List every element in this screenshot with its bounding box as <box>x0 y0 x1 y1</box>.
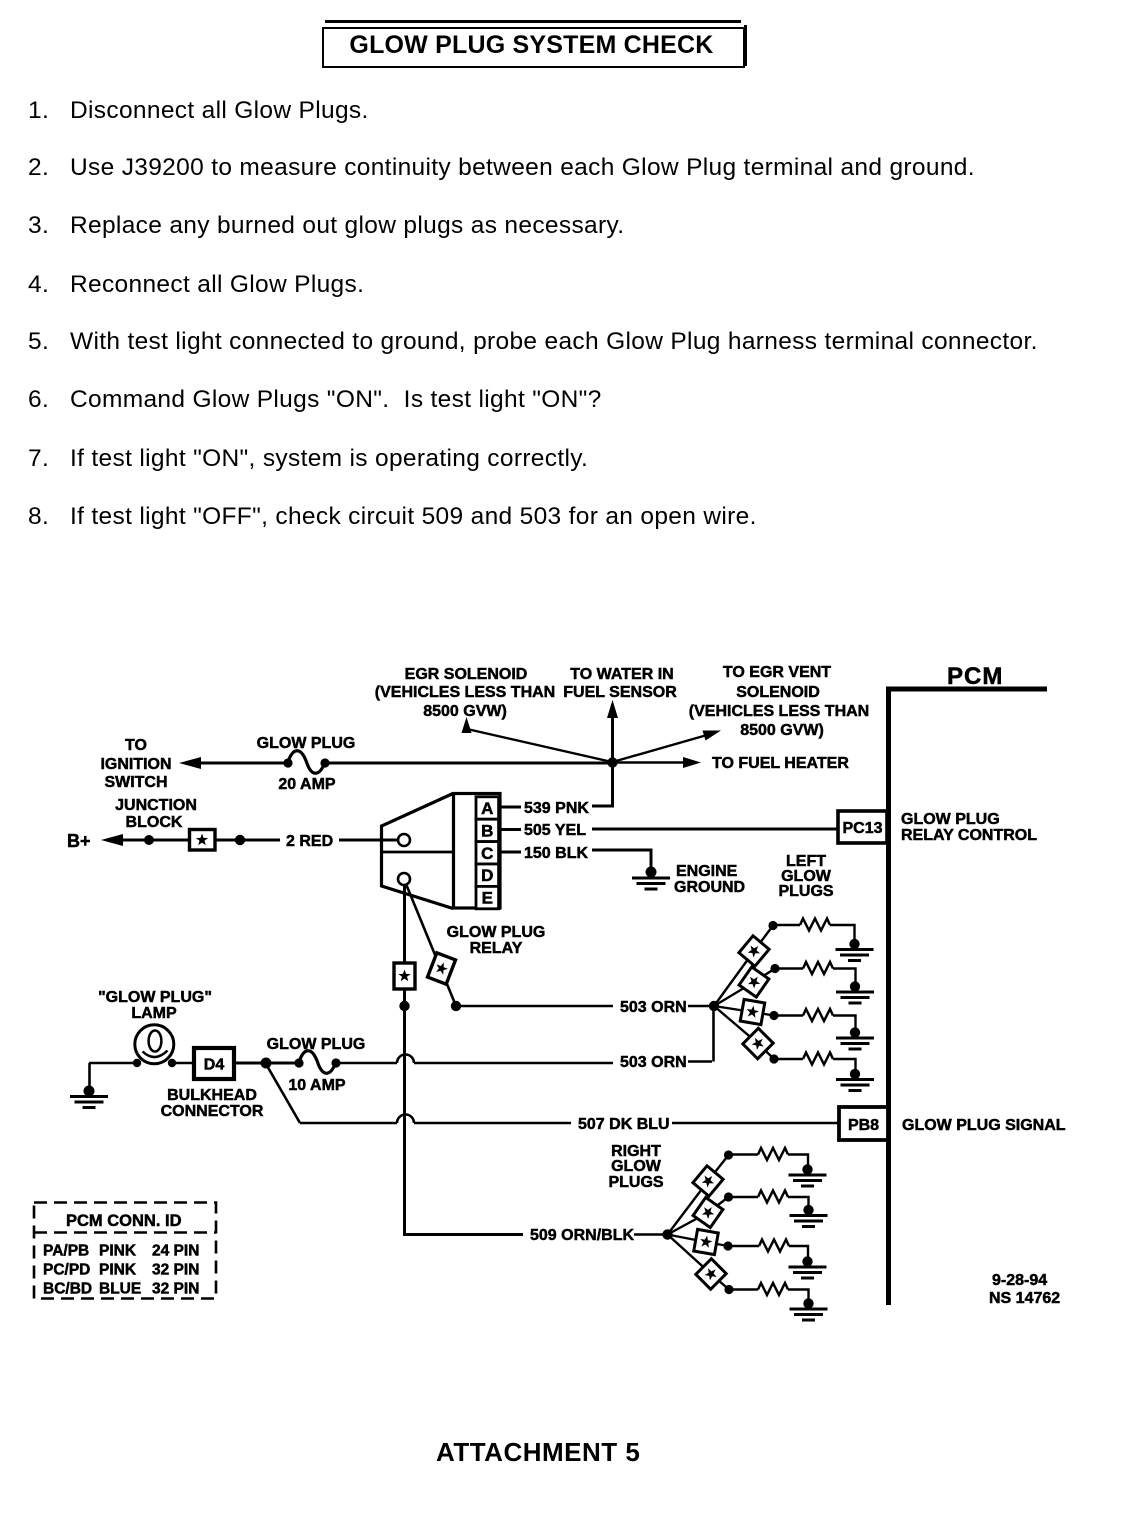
svg-text:150 BLK: 150 BLK <box>524 845 588 862</box>
ground left glow plug 2 <box>836 992 874 1003</box>
svg-text:GROUND: GROUND <box>674 879 745 896</box>
wire left glow plug branch 1 <box>714 925 855 1006</box>
wire right glow plug branch 1 <box>668 1155 809 1235</box>
connector left glow plug 1 (star box) <box>739 936 769 966</box>
wire 150 BLK to engine ground <box>592 850 651 868</box>
ground left glow plug 1 <box>836 950 874 961</box>
list item 5 <box>28 328 49 356</box>
wire right glow plug branch 4 <box>668 1235 809 1301</box>
connector D4 <box>194 1048 234 1079</box>
svg-text:"GLOW PLUG": "GLOW PLUG" <box>98 989 212 1006</box>
wire arrow to EGR solenoid <box>462 717 613 762</box>
svg-text:BLOCK: BLOCK <box>126 814 183 831</box>
connector left glow plug 4 (star box) <box>743 1028 773 1058</box>
svg-text:D: D <box>481 866 493 885</box>
relay contact circle (output) <box>398 873 410 885</box>
svg-text:PLUGS: PLUGS <box>608 1174 663 1191</box>
ground lamp (node dot + ground symbol) <box>70 1086 108 1108</box>
svg-text:LAMP: LAMP <box>131 1005 177 1022</box>
wire 503 ORN upper (relay to fan node) <box>456 1005 713 1008</box>
label TO EGR VENT SOLENOID (VEHICLES LESS THAN 8500 GVW) <box>689 664 869 739</box>
label ENGINE GROUND <box>674 863 745 896</box>
pin E <box>476 886 499 908</box>
label 9-28-94 NS 14762 <box>989 1272 1060 1307</box>
node ground dot right 1 <box>802 1164 812 1174</box>
svg-text:E: E <box>482 889 493 908</box>
ground right glow plug 4 <box>790 1309 828 1320</box>
pin B <box>476 819 499 841</box>
svg-text:A: A <box>481 799 493 818</box>
svg-text:GLOW PLUG SIGNAL: GLOW PLUG SIGNAL <box>902 1117 1066 1134</box>
connector right glow plug 1 (star box) <box>693 1166 723 1196</box>
svg-text:PLUGS: PLUGS <box>778 883 833 900</box>
svg-text:RELAY CONTROL: RELAY CONTROL <box>901 827 1037 844</box>
svg-text:TO FUEL HEATER: TO FUEL HEATER <box>712 755 849 772</box>
label TO WATER IN FUEL SENSOR <box>563 666 677 701</box>
wire right glow plug branch 3 <box>668 1235 809 1259</box>
node ground dot branch 3 <box>850 1027 860 1037</box>
wire lamp row <box>89 1063 193 1088</box>
list item 3 <box>28 212 49 240</box>
wire relay output slant (503 feed) <box>406 884 456 1006</box>
label GLOW PLUG RELAY CONTROL <box>901 811 1037 844</box>
ground left glow plug 3 <box>836 1038 874 1049</box>
wire B+ feed (2 RED) <box>101 834 398 846</box>
svg-text:8500 GVW): 8500 GVW) <box>423 703 507 720</box>
svg-text:GLOW PLUG: GLOW PLUG <box>447 924 546 941</box>
svg-text:10 AMP: 10 AMP <box>288 1077 346 1094</box>
label EGR SOLENOID (VEHICLES LESS THAN 8500 GVW) <box>375 666 555 720</box>
title box <box>322 27 745 68</box>
label "GLOW PLUG" LAMP <box>98 989 212 1022</box>
svg-text:ENGINE: ENGINE <box>676 863 738 880</box>
svg-text:EGR SOLENOID: EGR SOLENOID <box>405 666 528 683</box>
svg-text:PCM CONN. ID: PCM CONN. ID <box>66 1212 182 1230</box>
wire arrow to water in fuel sensor <box>607 700 618 762</box>
node splice after D4 <box>261 1058 272 1069</box>
svg-text:8500 GVW): 8500 GVW) <box>740 722 824 739</box>
wire 507 DK BLU (D4 node to PB8, hop over vertical) <box>266 1064 839 1123</box>
wire D4 to fuse <box>234 1062 295 1065</box>
glow plug resistor G2 <box>803 962 833 974</box>
node ground dot right 4 <box>803 1298 813 1308</box>
list item 2 <box>28 154 49 182</box>
label BULKHEAD CONNECTOR <box>161 1087 264 1120</box>
node ground dot branch 4 <box>850 1069 860 1079</box>
wire arrow to fuel heater <box>613 757 702 768</box>
svg-text:NS 14762: NS 14762 <box>989 1290 1060 1307</box>
svg-text:B+: B+ <box>67 831 91 851</box>
node terminal dot branch 4 <box>769 1054 778 1063</box>
connector symbol junction block (star box) <box>190 830 216 851</box>
relay contact circle (coil feed) <box>398 834 410 846</box>
wire ignition feed (left arrow to junction) <box>179 757 613 769</box>
connector left glow plug 3 (star box) <box>740 999 765 1024</box>
glow plug resistor G8 <box>758 1283 788 1295</box>
pin C <box>476 842 499 864</box>
wire right glow plug branch 2 <box>668 1197 809 1235</box>
wire left glow plug branch 2 <box>714 969 856 1007</box>
svg-text:32 PIN: 32 PIN <box>152 1262 199 1279</box>
svg-text:D4: D4 <box>204 1057 225 1074</box>
svg-text:GLOW PLUG: GLOW PLUG <box>257 735 356 752</box>
glow plug resistor G7 <box>759 1240 789 1252</box>
wire 539 PNK riser (junction down to label elbow) <box>592 763 613 807</box>
ground right glow plug 3 <box>789 1267 827 1278</box>
label RIGHT GLOW PLUGS <box>608 1143 663 1191</box>
svg-text:B: B <box>481 821 493 840</box>
node terminal dot right 3 <box>723 1241 732 1250</box>
wire arrow to EGR vent solenoid <box>613 731 722 763</box>
PCM CONN. ID legend box (dashed) <box>34 1203 216 1299</box>
svg-text:FUEL SENSOR: FUEL SENSOR <box>563 684 677 701</box>
svg-text:2 RED: 2 RED <box>286 833 333 850</box>
node terminal dot right 4 <box>724 1285 733 1294</box>
PCM connector outline (top edge and vertical body line) <box>887 687 1048 1306</box>
list item 4 <box>28 271 49 299</box>
svg-text:PC13: PC13 <box>842 820 882 837</box>
svg-text:GLOW: GLOW <box>611 1158 662 1175</box>
relay K1 glow plug relay body <box>382 794 501 909</box>
ground right glow plug 1 <box>789 1175 827 1186</box>
glow plug resistor G4 <box>803 1053 833 1065</box>
connector symbol on 503 slant (rotated star box) <box>428 953 456 984</box>
node left fan junction <box>709 1001 719 1011</box>
node splice on B+ wire <box>144 835 154 845</box>
label PA/PB PINK 24 PIN <box>43 1243 199 1260</box>
wire 505 YEL to PC13 <box>592 828 838 831</box>
svg-text:PC/PD: PC/PD <box>43 1262 90 1279</box>
glow plug resistor G6 <box>758 1191 788 1203</box>
pin A <box>476 797 499 819</box>
node terminal dot branch 2 <box>770 964 779 973</box>
svg-text:BLUE: BLUE <box>99 1281 141 1298</box>
connector symbol on 509 drop (star box) <box>394 963 415 989</box>
svg-text:20 AMP: 20 AMP <box>278 776 336 793</box>
svg-text:TO EGR VENT: TO EGR VENT <box>723 664 831 681</box>
ground left glow plug 4 <box>836 1080 874 1091</box>
node splice on 509 drop <box>399 1001 409 1011</box>
svg-text:PB8: PB8 <box>848 1117 879 1134</box>
svg-text:PA/PB: PA/PB <box>43 1243 89 1260</box>
svg-text:(VEHICLES LESS THAN: (VEHICLES LESS THAN <box>689 703 869 720</box>
label BC/BD BLUE 32 PIN <box>43 1281 199 1298</box>
node terminal dot branch 3 <box>769 1011 778 1020</box>
label GLOW PLUG RELAY <box>447 924 546 957</box>
connector right glow plug 4 (star box) <box>696 1259 726 1289</box>
svg-text:PCM: PCM <box>947 663 1003 690</box>
svg-text:9-28-94: 9-28-94 <box>992 1272 1047 1289</box>
wire pin B stub <box>499 828 521 831</box>
glow plug resistor G3 <box>803 1009 833 1021</box>
ground right glow plug 2 <box>790 1216 828 1227</box>
svg-text:539 PNK: 539 PNK <box>524 800 589 817</box>
svg-text:SWITCH: SWITCH <box>104 774 167 791</box>
node ground dot right 2 <box>803 1205 813 1215</box>
svg-text:507 DK BLU: 507 DK BLU <box>578 1116 670 1133</box>
label TO IGNITION SWITCH <box>100 737 171 791</box>
wire left glow plug branch 4 <box>714 1006 856 1070</box>
label JUNCTION BLOCK <box>115 797 197 831</box>
ground engine (node dot + ground symbol) <box>632 867 670 890</box>
svg-text:503 ORN: 503 ORN <box>620 1054 687 1071</box>
wire 509 ORN/BLK (riser elbow to right fan node) <box>405 1230 664 1235</box>
svg-text:JUNCTION: JUNCTION <box>115 797 197 814</box>
node splice junction (main feed) <box>607 757 617 767</box>
lamp terminal dots <box>133 1059 176 1067</box>
node splice after junction block <box>235 835 245 845</box>
svg-text:GLOW PLUG: GLOW PLUG <box>901 811 1000 828</box>
svg-text:509 ORN/BLK: 509 ORN/BLK <box>530 1227 634 1244</box>
label LEFT GLOW PLUGS <box>778 853 833 900</box>
svg-text:PINK: PINK <box>99 1262 137 1279</box>
svg-text:TO: TO <box>125 737 147 754</box>
list item 1 <box>28 97 49 125</box>
svg-text:SOLENOID: SOLENOID <box>736 684 820 701</box>
svg-text:BC/BD: BC/BD <box>43 1281 92 1298</box>
list item 8 <box>28 503 49 531</box>
node right fan junction <box>662 1229 672 1239</box>
node terminal dot right 1 <box>724 1150 733 1159</box>
glow plug resistor G5 <box>758 1148 788 1160</box>
connector left glow plug 2 (star box) <box>739 967 769 997</box>
glow plug resistor G1 <box>800 919 830 931</box>
node ground dot branch 2 <box>850 981 860 991</box>
connector right glow plug 3 (star box) <box>694 1229 719 1254</box>
svg-text:TO WATER IN: TO WATER IN <box>570 666 673 683</box>
fuse 20 AMP <box>283 751 329 774</box>
svg-text:505 YEL: 505 YEL <box>524 822 586 839</box>
wire left glow plug branch 3 <box>714 1006 856 1029</box>
svg-text:GLOW PLUG: GLOW PLUG <box>267 1036 366 1053</box>
svg-text:BULKHEAD: BULKHEAD <box>167 1087 257 1104</box>
fuse 10 AMP <box>294 1051 340 1074</box>
list item 7 <box>28 445 49 473</box>
connector PB8 <box>839 1107 888 1140</box>
wire relay output drop (509 feed through star connector) <box>403 885 406 1233</box>
wire pin A stub <box>499 806 521 809</box>
node terminal dot right 2 <box>724 1192 733 1201</box>
label PC/PD PINK 32 PIN <box>43 1262 199 1279</box>
svg-text:24 PIN: 24 PIN <box>152 1243 199 1260</box>
svg-text:CONNECTOR: CONNECTOR <box>161 1103 264 1120</box>
footer attachment label <box>436 1437 640 1468</box>
connector PC13 <box>838 811 887 843</box>
svg-text:IGNITION: IGNITION <box>100 756 171 773</box>
svg-text:32 PIN: 32 PIN <box>152 1281 199 1298</box>
node ground dot branch 1 <box>849 939 859 949</box>
svg-text:C: C <box>481 844 493 863</box>
lamp DS1 glow plug lamp <box>135 1025 174 1064</box>
wire 503 ORN lower (fuse to label, hop over vertical) <box>336 1006 714 1063</box>
node splice start of 503 wire <box>451 1001 461 1011</box>
node ground dot right 3 <box>802 1256 812 1266</box>
node terminal dot branch 1 <box>768 921 777 930</box>
svg-text:RELAY: RELAY <box>470 940 523 957</box>
svg-text:PINK: PINK <box>99 1243 137 1260</box>
connector right glow plug 2 (star box) <box>693 1197 723 1227</box>
pin D <box>476 864 499 886</box>
list item 6 <box>28 386 49 414</box>
svg-text:(VEHICLES LESS THAN: (VEHICLES LESS THAN <box>375 684 555 701</box>
svg-text:503 ORN: 503 ORN <box>620 999 687 1016</box>
wire pin C stub <box>499 851 521 854</box>
